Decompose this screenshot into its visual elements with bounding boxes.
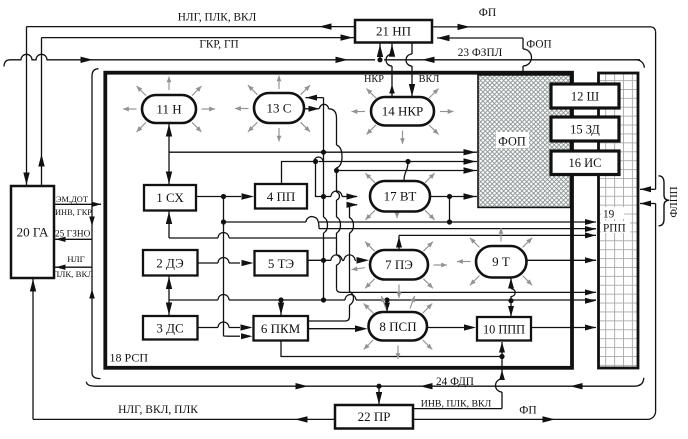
svg-text:8 ПСП: 8 ПСП	[379, 319, 416, 334]
block 12 Ш	[551, 84, 619, 108]
wire ИНВ, ПЛК, ВКЛ from 22 ПР to 10 ППП	[413, 408, 502, 410]
svg-text:4 ПП: 4 ПП	[267, 189, 296, 204]
wire branch down to 6 ПКМ	[223, 197, 225, 337]
svg-text:22 ПР: 22 ПР	[358, 409, 391, 424]
block 22 ПР	[335, 405, 413, 429]
wire branch into 8 ПСП top	[386, 300, 388, 312]
wire 17 ВТ output to ФОП and РПП tap	[430, 196, 477, 198]
block 5 ТЭ	[255, 251, 308, 276]
junction dot	[321, 297, 326, 302]
block 16 ИС	[551, 151, 619, 175]
wire 7 ПЭ top output to РПП y235.4	[398, 235, 400, 250]
junction dot	[508, 298, 513, 303]
svg-text:5 ТЭ: 5 ТЭ	[268, 256, 295, 271]
gray rays 14 НКР	[429, 89, 439, 99]
block 1 СХ	[144, 185, 196, 211]
block 9 Т	[476, 246, 527, 278]
wire riser V2	[323, 152, 325, 217]
wire y170 into ФОП	[337, 170, 478, 172]
svg-text:18 РСП: 18 РСП	[110, 351, 149, 365]
wire 4 ПП top to ФОП y161	[282, 162, 315, 185]
gray rays 17 ВТ	[425, 173, 435, 183]
block 4 ПП	[255, 184, 307, 209]
svg-text:1 СХ: 1 СХ	[156, 190, 184, 205]
block 18 РСП main box	[105, 73, 572, 368]
wire y292 to РПП	[341, 291, 596, 293]
svg-text:11 Н: 11 Н	[156, 102, 181, 117]
gray rays 13 С	[278, 76, 280, 90]
svg-text:15 ЗД: 15 ЗД	[570, 123, 600, 137]
wire ГКР, ГП from 20 ГА to 21 НП	[42, 37, 356, 39]
svg-text:13 С: 13 С	[267, 101, 292, 116]
wire 13 С input from riser	[306, 97, 324, 99]
svg-text:6 ПКМ: 6 ПКМ	[261, 321, 301, 336]
wire 1 СХ bottom line y238	[168, 211, 170, 239]
svg-text:23 ФЗПЛ: 23 ФЗПЛ	[458, 47, 503, 59]
wire down into 22 ПР	[378, 386, 380, 404]
wire 2 ДЭ to 3 ДС bidirectional	[168, 276, 170, 317]
junction dot	[334, 168, 339, 173]
svg-text:16 ИС: 16 ИС	[569, 156, 602, 170]
wire 3 ДС to 6 ПКМ	[198, 327, 241, 329]
junction dot to 22 ПР	[376, 384, 381, 389]
wire НЛГ ПЛК,ВКЛ into 20 ГА	[54, 266, 92, 268]
svg-text:ФП: ФП	[479, 7, 496, 19]
block 21 НП	[355, 20, 432, 43]
wire 13 С output to riser V3	[304, 108, 319, 110]
wire 25 ГЗНО into 20 ГА	[54, 238, 92, 240]
wire V3 down to y292	[336, 171, 338, 289]
wire НЛГ, ВКЛ, ПЛК from 22 ПР to 20 ГА	[33, 418, 335, 420]
gray rays 7 ПЭ	[423, 242, 433, 252]
block 6 ПКМ	[254, 316, 309, 341]
svg-text:20 ГА: 20 ГА	[17, 225, 49, 240]
svg-text:21 НП: 21 НП	[376, 24, 411, 39]
wire branch into 6 ПКМ top	[278, 297, 283, 302]
wire V4 from 6 ПКМ up to 17 ВТ	[308, 305, 350, 321]
block 11 Н	[142, 95, 196, 123]
wire 17 ВТ top tap	[405, 159, 410, 164]
svg-text:НЛГ, ПЛК, ВКЛ: НЛГ, ПЛК, ВКЛ	[178, 12, 257, 24]
svg-text:ВКЛ: ВКЛ	[419, 74, 440, 85]
svg-text:10 ППП: 10 ППП	[483, 323, 525, 337]
wire 6 ПКМ bottom to 10 ППП bottom	[281, 341, 502, 357]
svg-text:24 ФДП: 24 ФДП	[436, 376, 474, 388]
block 20 ГА	[11, 186, 54, 278]
svg-text:9 Т: 9 Т	[492, 254, 510, 269]
wire 2 ДЭ to 5 ТЭ	[198, 262, 241, 264]
wire right rail ФП lower into 19 РПП	[655, 204, 657, 412]
junction dot	[321, 194, 326, 199]
svg-text:17 ВТ: 17 ВТ	[384, 189, 417, 204]
wire ЭМ,ДОТ ИНВ,ГКР into 18 РСП	[54, 203, 101, 205]
block 17 ВТ	[370, 181, 430, 212]
wire left service vertical	[92, 69, 99, 76]
wire НЛГ, ПЛК, ВКЛ from 21 НП to 20 ГА (top rail)	[27, 26, 356, 28]
block ФОП (hatched)	[478, 75, 571, 208]
junction dot	[321, 258, 326, 263]
svg-text:ИНВ, ГКР: ИНВ, ГКР	[55, 208, 92, 217]
wire 17 ВТ lower input from V4	[350, 204, 358, 206]
svg-text:2 ДЭ: 2 ДЭ	[156, 256, 184, 271]
svg-text:ФОП: ФОП	[498, 134, 526, 148]
svg-text:ГКР, ГП: ГКР, ГП	[199, 39, 238, 51]
brace ФЛПП	[659, 176, 670, 226]
svg-text:НЛГ, ВКЛ, ПЛК: НЛГ, ВКЛ, ПЛК	[118, 404, 198, 416]
wire ФОП into 21 НП right	[437, 37, 523, 39]
wire ФП out of 21 НП	[432, 26, 651, 28]
wire 11 Н to 1 СХ bidirectional	[168, 123, 170, 185]
svg-text:ФОП: ФОП	[526, 39, 551, 51]
svg-text:ЭМ,ДОТ: ЭМ,ДОТ	[56, 195, 88, 204]
svg-text:ФЛПП: ФЛПП	[668, 186, 680, 217]
wire 23 ФЗПЛ top bus	[4, 60, 10, 67]
svg-text:НЛГ: НЛГ	[67, 254, 84, 264]
block 10 ППП	[477, 317, 531, 341]
junction dot	[447, 219, 452, 224]
gray rays 11 Н	[168, 77, 170, 91]
junction dot	[221, 194, 226, 199]
wire 1 СХ to 4 ПП	[196, 196, 241, 198]
wire 5 ТЭ output to 7 ПЭ	[308, 259, 357, 261]
junction dot	[384, 297, 389, 302]
block 7 ПЭ	[370, 250, 428, 280]
svg-text:19: 19	[603, 208, 615, 220]
wire 8 ПСП to 10 ППП	[427, 327, 464, 329]
svg-text:3 ДС: 3 ДС	[156, 321, 183, 336]
svg-text:14 НКР: 14 НКР	[382, 104, 424, 119]
svg-text:ФП: ФП	[519, 405, 536, 417]
wire НКР from 14 НКР up to 21 НП	[391, 44, 393, 97]
wire V1 riser to 17 ВТ	[316, 162, 358, 197]
wire ФЗПЛ up into 21 НП	[379, 44, 381, 60]
junction dot	[321, 150, 326, 155]
gray rays 9 Т	[500, 228, 502, 242]
block 15 ЗД	[551, 117, 619, 141]
wire vertical ГКР from 20 ГА top	[41, 38, 43, 185]
junction dot	[221, 219, 226, 224]
block 14 НКР	[371, 97, 434, 126]
block 19 РПП (hatched)	[599, 73, 639, 368]
svg-text:12 Ш: 12 Ш	[571, 90, 600, 104]
wire 24 ФДП bottom bus	[86, 382, 96, 387]
block 8 ПСП	[369, 312, 428, 341]
gray rays 8 ПСП	[423, 304, 433, 314]
wire 10 ППП to РПП	[531, 327, 596, 329]
wire 6 ПКМ second output to 8 ПСП	[308, 328, 355, 330]
block 3 ДС	[143, 316, 198, 340]
svg-text:ИНВ, ПЛК, ВКЛ: ИНВ, ПЛК, ВКЛ	[421, 398, 492, 409]
wire ФП from 22 ПР to right rail	[413, 418, 648, 420]
wire vertical НЛГ into 20 ГА top	[26, 27, 28, 185]
wire right rail ФП upper into 19 РПП	[655, 32, 657, 190]
svg-text:РПП: РПП	[603, 222, 626, 234]
block 2 ДЭ	[143, 250, 198, 276]
junction dot	[447, 194, 452, 199]
junction dot ФЗПЛ	[377, 57, 382, 62]
svg-text:НКР: НКР	[364, 74, 384, 85]
block 13 С	[254, 93, 304, 123]
wire y300 bus	[169, 299, 596, 301]
wire ВКЛ from 21 НП down to 14 НКР	[411, 43, 413, 97]
wire y222 rail to 19 РПП	[224, 221, 307, 223]
wire 9 Т output to РПП	[527, 259, 597, 261]
svg-text:7 ПЭ: 7 ПЭ	[385, 257, 413, 272]
wire bus y152 into ФОП	[169, 151, 477, 153]
svg-text:ПЛК, ВКЛ: ПЛК, ВКЛ	[53, 269, 93, 279]
wire 9 Т to 10 ППП bidirectional	[510, 278, 512, 289]
junction dot	[313, 159, 318, 164]
